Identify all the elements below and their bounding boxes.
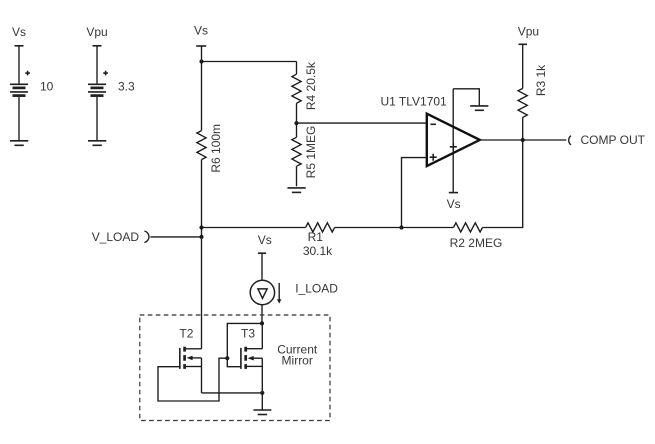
svg-text:R4 20.5k: R4 20.5k <box>304 61 318 110</box>
node Vpu (R3 pullup terminal) <box>518 25 539 45</box>
node junction R1 branch <box>199 225 203 229</box>
svg-text:Vs: Vs <box>12 25 26 39</box>
wire V_LOAD node to R1 <box>202 227 306 229</box>
ground (op-amp V-) <box>470 106 488 110</box>
wire R3 node down to R2 <box>483 140 523 228</box>
svg-text:COMP OUT: COMP OUT <box>581 133 646 147</box>
svg-text:Vpu: Vpu <box>86 25 107 39</box>
battery V2 3.3V <box>88 46 135 141</box>
svg-text:R6 100m: R6 100m <box>209 124 223 173</box>
node junction I_LOAD/T3 <box>260 321 264 325</box>
svg-text:Vs: Vs <box>447 197 461 211</box>
node Vs (I_LOAD supply terminal) <box>258 233 272 280</box>
node junction gate bus <box>225 356 229 360</box>
svg-text:3.3: 3.3 <box>118 80 135 94</box>
svg-text:Mirror: Mirror <box>282 354 313 368</box>
wire +input column <box>402 158 427 228</box>
wire T2 source to ground node <box>202 392 263 394</box>
svg-text:R1: R1 <box>308 230 324 244</box>
transistor T2 <box>179 327 201 393</box>
wire R1 to +input node <box>335 227 402 229</box>
svg-text:R5 1MEG: R5 1MEG <box>304 126 318 179</box>
wire R2 to +input node <box>402 227 454 229</box>
svg-text:U1 TLV1701: U1 TLV1701 <box>380 95 447 109</box>
ground (R5) <box>287 188 305 193</box>
svg-text:R3 1k: R3 1k <box>534 64 548 96</box>
wire top to R4 <box>202 61 297 63</box>
node junction output <box>521 138 525 142</box>
wire T2 gate loop <box>158 358 227 401</box>
svg-text:10: 10 <box>40 80 54 94</box>
wire to mirror ground <box>261 393 263 410</box>
node Vs (top center supply terminal) <box>194 24 208 62</box>
wire gate bus from I_LOAD node <box>227 323 262 366</box>
wire op-amp supply column <box>452 89 454 193</box>
node junction V_LOAD <box>199 235 203 239</box>
resistor R3 1k <box>518 44 548 140</box>
svg-text:I_LOAD: I_LOAD <box>295 282 338 296</box>
node junction top <box>199 59 203 63</box>
node junction +input <box>399 225 403 229</box>
svg-text:T3: T3 <box>241 327 255 341</box>
ground (current mirror) <box>253 410 271 415</box>
current source I_LOAD <box>250 280 338 323</box>
svg-text:30.1k: 30.1k <box>303 244 333 258</box>
wire inverting input <box>297 122 427 124</box>
wire output row <box>480 139 567 141</box>
resistor R6 100m <box>197 62 223 228</box>
ground (battery V2) <box>88 141 106 146</box>
battery V1 10V <box>10 46 54 141</box>
node V_LOAD input connector <box>92 230 202 244</box>
node Vs (op-amp V+ terminal) <box>447 193 461 212</box>
svg-text:Vs: Vs <box>194 24 208 38</box>
node junction sources/ground <box>260 391 264 395</box>
node COMP OUT connector <box>569 133 646 147</box>
current mirror dashed box <box>140 315 330 421</box>
svg-text:T2: T2 <box>179 327 193 341</box>
svg-text:R2 2MEG: R2 2MEG <box>450 236 503 250</box>
resistor R2 2MEG <box>450 223 503 250</box>
svg-text:Vpu: Vpu <box>518 25 539 39</box>
resistor R4 20.5k <box>292 61 318 123</box>
node junction R4/R5 <box>294 121 298 125</box>
ground (battery V1) <box>10 141 28 146</box>
resistor R1 30.1k <box>303 223 335 258</box>
transistor T3 <box>241 323 262 393</box>
svg-text:Vs: Vs <box>258 233 272 247</box>
svg-text:V_LOAD: V_LOAD <box>92 230 140 244</box>
wire column down to current mirror <box>201 228 203 349</box>
resistor R5 1MEG <box>292 123 318 186</box>
wire supply to ground flag <box>453 89 479 106</box>
